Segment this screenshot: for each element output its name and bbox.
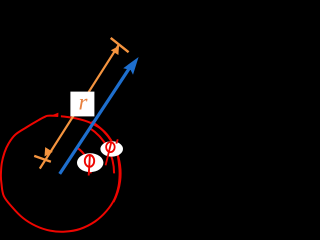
svg-text:r: r [79,90,89,115]
